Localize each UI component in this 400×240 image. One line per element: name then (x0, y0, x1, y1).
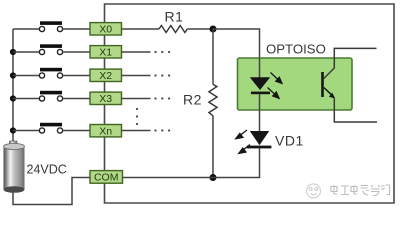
phototransistor Q1 collector (324, 48, 377, 78)
wire S0 to X0 (63, 28, 90, 30)
ellipsis X1 (154, 51, 156, 53)
switch Sn contacts (39, 128, 44, 133)
node bus-Xn (10, 127, 16, 133)
watermark logo (307, 184, 321, 198)
wire X1 tail (122, 51, 151, 53)
wire battery negative to COM (13, 178, 90, 205)
node bus-X2 (10, 72, 16, 78)
switch S1 row wire left (13, 51, 39, 53)
wire opto LED to VD1 (259, 94, 261, 131)
switch S3 row wire left (13, 98, 39, 100)
switch Sn row wire left (13, 130, 39, 132)
PLC enclosure left edge segment X2-X3 (104, 81, 106, 92)
svg-text:X0: X0 (99, 24, 112, 36)
wire VD1 to node B (213, 148, 260, 177)
svg-text:R1: R1 (165, 9, 184, 25)
node bus-X1 (10, 49, 16, 55)
switch S2 bar (40, 68, 62, 72)
wire emitter out (334, 98, 377, 122)
switch S0 row wire left (13, 28, 39, 30)
terminal X2 (90, 69, 122, 82)
switch S2 contacts (39, 73, 44, 78)
switch S1 contacts (39, 49, 44, 54)
wire node A to R2 (212, 29, 214, 84)
svg-text:Xn: Xn (99, 125, 112, 137)
terminal X0 (90, 23, 122, 36)
svg-text:R2: R2 (183, 92, 202, 108)
PLC enclosure left edge segment X3-Xn (104, 104, 106, 124)
terminal COM (90, 171, 123, 184)
node bus-X3 (10, 95, 16, 101)
PLC enclosure left edge segment Xn-COM (104, 137, 106, 171)
wire R2 to node B (212, 116, 214, 178)
optocoupler U1 package (238, 58, 353, 110)
switch S0 contacts (39, 26, 44, 31)
phototransistor Q1 emitter (324, 88, 332, 96)
terminal X1 (90, 46, 122, 59)
opto LED emission arrow 1 (271, 73, 283, 84)
wire Sn to Xn (63, 130, 90, 132)
vertical ellipsis more inputs (136, 108, 138, 110)
svg-text:OPTOISO: OPTOISO (266, 42, 326, 57)
svg-text:X1: X1 (99, 47, 112, 59)
opto LED D1 (250, 77, 270, 90)
wire S3 to X3 (63, 98, 90, 100)
wire S1 to X1 (63, 51, 90, 53)
terminal Xn (90, 125, 122, 138)
svg-text:X2: X2 (99, 70, 112, 82)
VD1 emission arrow 2 (239, 145, 250, 154)
opto LED D1 anode wire (259, 58, 261, 78)
ellipsis Xn (154, 129, 156, 131)
node A junction (210, 26, 217, 33)
wire Xn tail (122, 130, 151, 132)
switch S0 bar (40, 21, 62, 25)
switch S2 row wire left (13, 75, 39, 77)
wire X0 to R1 (122, 28, 160, 30)
svg-text:X3: X3 (99, 93, 112, 105)
ellipsis X2 (154, 74, 156, 76)
ellipsis X3 (154, 97, 156, 99)
phototransistor Q1 base bar (321, 72, 324, 97)
PLC enclosure left edge segment X1-X2 (104, 58, 106, 69)
switch S3 bar (40, 91, 62, 95)
resistor R1 (159, 26, 187, 33)
watermark text (331, 185, 390, 196)
VD1 emission arrow 1 (236, 130, 247, 139)
switch S1 bar (40, 44, 62, 48)
svg-text:COM: COM (94, 172, 119, 184)
switch Sn bar (40, 123, 62, 127)
wire COM to node B (123, 177, 214, 179)
wire X3 tail (122, 98, 151, 100)
resistor R2 (209, 84, 217, 115)
wire S2 to X2 (63, 75, 90, 77)
left supply bus wire (12, 29, 14, 142)
PLC enclosure left edge segment X0-X1 (104, 35, 106, 46)
terminal X3 (90, 92, 122, 105)
wire node A to LED branch (213, 29, 260, 78)
wire X2 tail (122, 75, 151, 77)
diode VD1 (250, 131, 269, 145)
switch S3 contacts (39, 96, 44, 101)
node B junction (210, 174, 217, 181)
svg-text:VD1: VD1 (275, 133, 304, 149)
opto LED emission arrow 2 (268, 88, 280, 99)
wire R1 to node A (187, 28, 213, 30)
PLC enclosure outline top edge (105, 4, 395, 203)
svg-text:24VDC: 24VDC (27, 163, 67, 177)
